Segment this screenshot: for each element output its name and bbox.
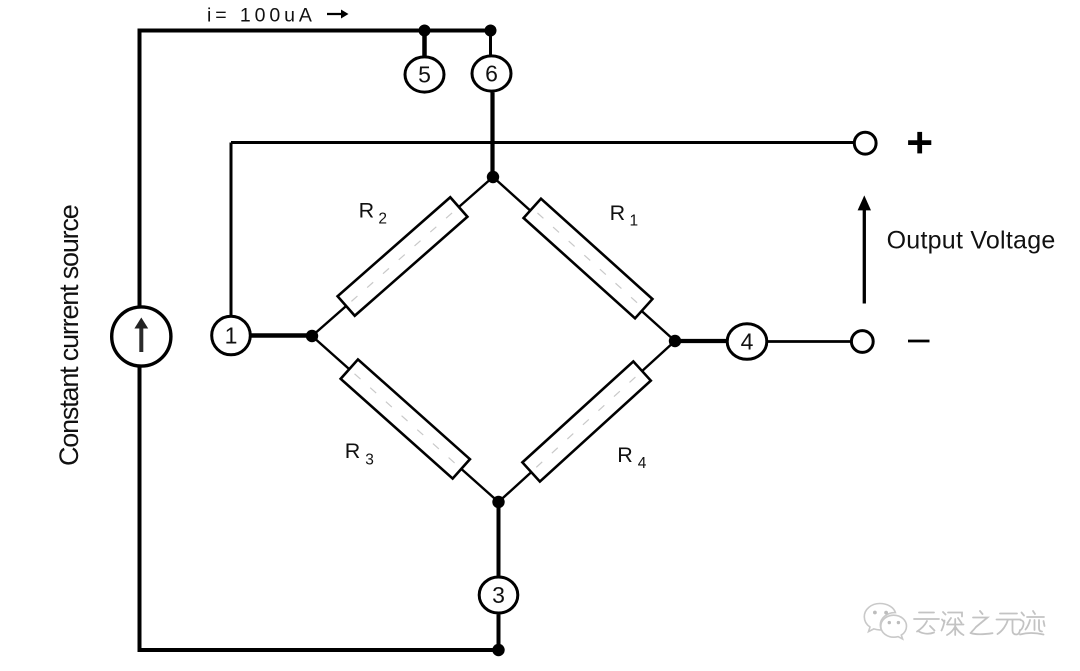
svg-text:2: 2	[378, 211, 387, 228]
resistor R3 body	[341, 359, 470, 478]
wire: top horizontal	[138, 29, 491, 33]
svg-text:R: R	[610, 201, 626, 225]
svg-text:4: 4	[638, 455, 647, 472]
svg-text:3: 3	[365, 451, 374, 468]
symbol: minus	[908, 340, 930, 343]
node 3	[479, 577, 518, 613]
label R1	[610, 201, 639, 230]
junction dot on top wire at node 6 stub	[485, 25, 497, 37]
wire: bridge right to node 4	[675, 339, 728, 343]
wire: bottom horizontal	[138, 648, 499, 652]
watermark: text zhi	[971, 611, 993, 634]
svg-text:6: 6	[485, 61, 498, 87]
svg-text:Constant current source: Constant current source	[54, 205, 84, 466]
junction dot: bottom wire end	[492, 644, 504, 656]
watermark: wechat logo	[864, 604, 906, 640]
svg-text:5: 5	[418, 62, 431, 88]
current source U1	[112, 307, 171, 366]
svg-text:R: R	[345, 439, 361, 463]
terminal: minus output	[851, 331, 873, 353]
watermark: text yun	[914, 613, 939, 634]
watermark: text shen	[942, 612, 964, 635]
svg-text:1: 1	[225, 323, 238, 349]
svg-text:R: R	[617, 443, 633, 467]
svg-text:Output Voltage: Output Voltage	[887, 226, 1056, 254]
svg-text:R: R	[359, 199, 375, 223]
junction dot: bridge right node	[669, 335, 681, 347]
wire: stub to node 6	[489, 31, 492, 56]
junction dot: bridge left node	[306, 330, 318, 342]
watermark: text wu	[997, 614, 1021, 635]
wire: node 3 to bottom wire	[497, 614, 501, 650]
terminal: plus output	[854, 132, 876, 154]
svg-text:4: 4	[741, 329, 754, 355]
junction dot: bridge bottom node	[492, 496, 504, 508]
svg-text:i= 100uA: i= 100uA	[207, 5, 316, 27]
wire: node 1 riser	[230, 143, 233, 317]
label R3	[345, 439, 374, 468]
wire: left vertical (current source branch)	[138, 31, 142, 651]
node 6	[472, 56, 511, 91]
bridge edge: top to right (R1 arm)	[493, 177, 675, 341]
svg-text:1: 1	[630, 213, 639, 230]
bridge edge: bottom to right (R4 arm)	[499, 341, 676, 502]
label R4	[617, 443, 647, 472]
wire: bridge bottom to node 3	[497, 502, 501, 576]
wire: plus output horizontal	[231, 141, 854, 144]
node 1	[212, 316, 251, 355]
symbol: plus	[908, 132, 931, 154]
resistor R4 body	[522, 361, 650, 481]
resistor R2 body	[338, 197, 468, 316]
wire: node 4 to minus terminal	[767, 340, 852, 343]
label R2	[359, 199, 387, 228]
wire: node 1 to bridge left	[250, 333, 308, 338]
resistor R1 body	[524, 199, 653, 319]
wire: stub to node 5	[422, 31, 427, 58]
watermark: text ji	[1020, 611, 1045, 635]
arrow: output voltage	[858, 195, 871, 303]
junction dot: bridge top node	[487, 171, 499, 183]
svg-text:3: 3	[492, 582, 505, 608]
arrow: current direction	[327, 10, 349, 19]
bridge edge: left to top (R2 arm)	[312, 177, 493, 336]
wire: node 6 down to bridge top	[490, 92, 494, 177]
bridge edge: left to bottom (R3 arm)	[312, 336, 499, 502]
junction dot on top wire at node 5 stub	[419, 25, 431, 37]
node 5	[405, 57, 444, 92]
node 4	[727, 324, 767, 360]
